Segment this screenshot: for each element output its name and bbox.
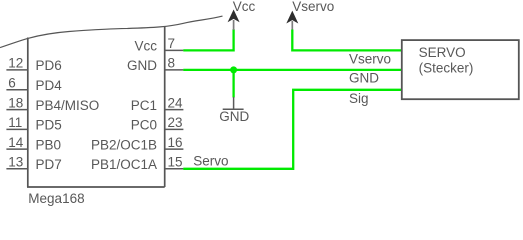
svg-text:18: 18 <box>8 95 23 110</box>
svg-text:12: 12 <box>8 56 23 71</box>
pin 13 wire (PD7) <box>6 168 27 170</box>
wire Vservo net: arrow to servo connector <box>292 30 402 51</box>
svg-text:Servo: Servo <box>193 153 228 168</box>
pin 6 wire (PD4) <box>6 89 27 91</box>
svg-text:7: 7 <box>168 36 176 51</box>
svg-text:23: 23 <box>168 115 183 130</box>
pin 18 wire (PB4/MISO) <box>6 109 27 111</box>
svg-text:Vservo: Vservo <box>349 51 391 66</box>
svg-text:6: 6 <box>8 76 16 91</box>
pin 8 wire (GND) <box>165 69 184 71</box>
IC U1 Mega168 body <box>27 26 165 187</box>
svg-text:14: 14 <box>8 135 24 150</box>
svg-text:SERVO: SERVO <box>419 45 466 60</box>
pin 16 wire (PB2/OC1B) <box>165 148 184 150</box>
svg-text:GND: GND <box>127 58 157 73</box>
junction on GND net <box>230 66 237 73</box>
svg-text:15: 15 <box>168 155 183 170</box>
svg-text:Vcc: Vcc <box>134 39 157 54</box>
svg-text:8: 8 <box>168 56 176 71</box>
svg-text:PC1: PC1 <box>131 98 157 113</box>
svg-text:13: 13 <box>8 155 23 170</box>
svg-text:(Stecker): (Stecker) <box>419 61 474 76</box>
svg-text:PD5: PD5 <box>36 118 62 133</box>
pin 7 wire (Vcc) <box>165 49 184 51</box>
pin 14 wire (PB0) <box>6 148 27 150</box>
svg-text:GND: GND <box>219 109 249 124</box>
svg-text:PB1/OC1A: PB1/OC1A <box>91 157 157 172</box>
svg-text:PD6: PD6 <box>36 58 62 73</box>
wire GND net: pin8 to servo connector <box>183 69 401 71</box>
pin 11 wire (PD5) <box>6 128 27 130</box>
svg-text:Vcc: Vcc <box>233 0 256 14</box>
svg-text:Vservo: Vservo <box>292 0 334 14</box>
pin 12 wire (PD6) <box>6 69 27 71</box>
pin 15 wire (PB1/OC1A) <box>165 168 184 170</box>
svg-text:PB2/OC1B: PB2/OC1B <box>91 137 157 152</box>
svg-text:PC0: PC0 <box>131 118 157 133</box>
servo connector J1 box <box>402 40 519 99</box>
torn-edge curve <box>0 16 223 47</box>
svg-text:PD7: PD7 <box>36 157 62 172</box>
pin 23 wire (PC0) <box>165 128 184 130</box>
svg-text:16: 16 <box>168 135 183 150</box>
Vservo supply arrow <box>287 12 297 31</box>
svg-text:11: 11 <box>8 115 22 130</box>
svg-text:Sig: Sig <box>349 91 369 106</box>
pin 24 wire (PC1) <box>165 109 184 111</box>
Vcc supply arrow <box>229 10 239 30</box>
svg-text:PB4/MISO: PB4/MISO <box>36 98 100 113</box>
svg-text:PB0: PB0 <box>36 137 62 152</box>
wire Servo/Sig net: pin15 to servo connector <box>183 90 401 169</box>
ground symbol <box>223 97 244 109</box>
svg-text:PD4: PD4 <box>36 78 63 93</box>
svg-text:Mega168: Mega168 <box>28 191 84 206</box>
wire GND net: junction down to ground symbol <box>232 70 234 98</box>
svg-text:24: 24 <box>168 95 184 110</box>
wire Vcc net: pin7 to Vcc arrow <box>183 29 233 50</box>
svg-text:GND: GND <box>349 71 379 86</box>
